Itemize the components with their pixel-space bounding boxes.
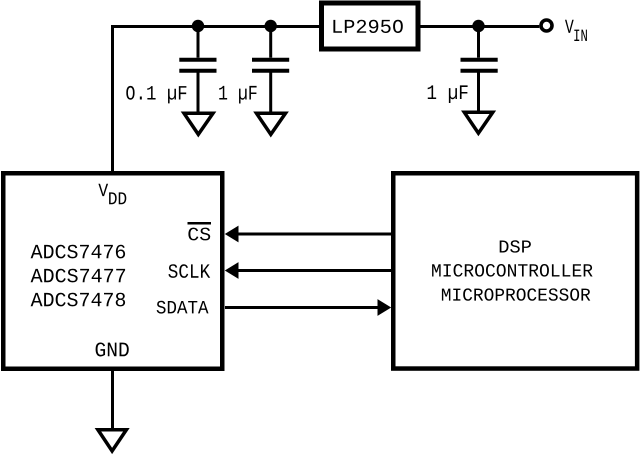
capacitor C1 wire from rail xyxy=(197,27,200,58)
wire CS signal line xyxy=(236,233,391,236)
label VIN main V xyxy=(565,20,574,33)
part number ADCS7477 xyxy=(31,269,126,283)
pin label SDATA xyxy=(157,301,209,314)
arrowhead CS into ADC xyxy=(225,226,239,243)
capacitor C2 top plate xyxy=(252,58,289,62)
wire top rail left segment xyxy=(111,25,319,28)
capacitor C3 bottom plate xyxy=(461,69,498,73)
DSP box label line 1 DSP xyxy=(500,240,531,252)
wire top rail right segment xyxy=(420,25,539,28)
value label 0.1 uF for C1 xyxy=(126,86,186,104)
arrowhead SDATA into DSP xyxy=(378,299,392,316)
ADC U1 box ADCS747x xyxy=(3,173,222,369)
value label 1 uF for C3 xyxy=(428,85,468,103)
label VIN subscript IN xyxy=(574,30,587,41)
value label 1 uF for C2 xyxy=(219,86,256,104)
terminal VIN open circle xyxy=(541,20,552,31)
capacitor C3 wire from rail xyxy=(477,27,480,58)
capacitor C1 wire to ground xyxy=(197,71,200,113)
capacitor C2 wire from rail xyxy=(269,27,272,58)
ground symbol under C1 xyxy=(184,113,213,134)
regulator label LP2950 xyxy=(333,20,402,33)
capacitor C3 top plate xyxy=(461,58,498,62)
wire SDATA signal line xyxy=(225,306,380,309)
pin label VDD main V xyxy=(98,184,108,196)
node junction dot 1 xyxy=(192,20,204,32)
regulator U2 LP2950 box xyxy=(322,3,419,49)
capacitor C1 bottom plate xyxy=(179,69,216,73)
DSP box label line 2 MICROCONTROLLER xyxy=(432,264,592,277)
part number ADCS7478 xyxy=(31,293,126,307)
node junction dot 3 xyxy=(472,20,484,32)
node junction dot 2 xyxy=(265,20,277,32)
pin label SCLK xyxy=(168,264,210,278)
part number ADCS7476 xyxy=(31,245,126,259)
capacitor C2 bottom plate xyxy=(252,69,289,73)
pin label GND xyxy=(96,342,129,356)
capacitor C1 top plate xyxy=(179,58,216,62)
ground symbol under C3 xyxy=(464,112,493,133)
arrowhead SCLK into ADC xyxy=(225,262,239,279)
DSP box xyxy=(393,173,637,368)
pin label CS xyxy=(188,228,210,241)
ground symbol under ADC xyxy=(98,430,127,451)
pin label VDD subscript DD xyxy=(109,192,126,204)
capacitor C2 wire to ground xyxy=(269,71,272,113)
wire left vertical drop to VDD xyxy=(111,25,114,172)
DSP box label line 3 MICROPROCESSOR xyxy=(442,288,590,300)
wire ground drop under ADC xyxy=(111,370,114,429)
ground symbol under C2 xyxy=(257,113,286,134)
overline for CS xyxy=(188,222,212,225)
capacitor C3 wire to ground xyxy=(477,71,480,112)
wire SCLK signal line xyxy=(236,269,391,272)
